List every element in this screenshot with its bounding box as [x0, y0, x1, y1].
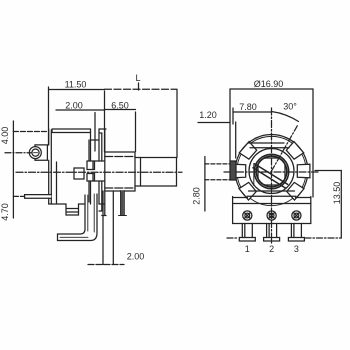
locating tab — [230, 161, 236, 180]
ring gap lower-right — [287, 182, 304, 200]
eyelet 3 — [292, 211, 301, 220]
top tooth chords — [248, 143, 289, 148]
svg-text:1: 1 — [245, 244, 250, 254]
dim diameter 16.90 line — [230, 88, 313, 90]
main pin inner wall — [60, 194, 94, 237]
rotor D-flat — [253, 164, 255, 186]
30 deg rotation line — [272, 126, 298, 172]
stub pin — [66, 204, 79, 215]
svg-text:11.50: 11.50 — [65, 80, 87, 90]
svg-text:4.70: 4.70 — [0, 203, 10, 221]
svg-text:L: L — [135, 73, 140, 83]
plate top edge — [99, 129, 106, 133]
dim text 4.70 — [0, 203, 10, 221]
lower box sides — [233, 197, 311, 224]
svg-text:2.00: 2.00 — [127, 252, 145, 262]
svg-text:3: 3 — [294, 244, 299, 254]
front plate verticals — [99, 129, 105, 211]
pin 2 — [264, 224, 280, 242]
center square — [74, 168, 84, 179]
svg-text:7.80: 7.80 — [239, 102, 257, 112]
bushing thread lines — [105, 157, 135, 189]
lower box top corners — [233, 197, 311, 199]
shaft — [135, 158, 177, 187]
pin bottom reference dashed — [227, 237, 238, 239]
svg-text:2: 2 — [269, 244, 274, 254]
side exit pin (flat, pointing left) — [25, 195, 52, 199]
body inner wall — [56, 162, 58, 203]
body bottom edge — [49, 203, 85, 205]
ring gap left — [233, 164, 246, 178]
ring gap upper-right — [286, 142, 303, 160]
dim 30 deg arc — [272, 112, 299, 122]
pin 1 — [239, 224, 255, 242]
mounting face extension vertical — [104, 91, 106, 152]
svg-text:13.50: 13.50 — [332, 182, 342, 205]
dim 1.20 — [198, 122, 230, 124]
shaft step line — [140, 158, 142, 187]
dim text 4.00 — [0, 127, 10, 145]
bottom dim extension lines — [103, 191, 113, 265]
svg-text:1.20: 1.20 — [199, 110, 217, 120]
inner circle B — [256, 156, 287, 187]
svg-text:Ø16.90: Ø16.90 — [254, 79, 284, 89]
rotor notch lower — [87, 174, 95, 182]
svg-text:4.00: 4.00 — [0, 127, 10, 145]
inner rim arc — [237, 136, 306, 205]
pin label 2 — [269, 244, 274, 254]
dim 2.00 (top) — [56, 109, 105, 111]
body left edge — [49, 129, 52, 204]
dim text 11.50 — [65, 80, 87, 90]
dim L line — [105, 88, 178, 90]
ring inner circle — [249, 149, 294, 194]
box seam — [233, 203, 311, 205]
main centerline — [16, 171, 182, 173]
pin label 3 — [294, 244, 299, 254]
dim 7.80 — [233, 111, 272, 113]
dim 13.50 — [340, 171, 342, 239]
svg-text:6.50: 6.50 — [111, 101, 129, 111]
extension line body top — [13, 131, 48, 133]
dim 11.50 line — [49, 89, 105, 91]
vertical centerline — [271, 108, 273, 243]
ring gap lower-left — [239, 182, 256, 200]
body right edge — [89, 133, 91, 205]
body top cap — [52, 129, 91, 133]
lug hole — [32, 149, 39, 156]
lug circle outer — [29, 147, 41, 159]
dim 2.00 bottom line — [88, 264, 124, 266]
lug hole centerline — [5, 152, 31, 154]
inner circle A — [254, 154, 288, 188]
svg-text:2.80: 2.80 — [192, 187, 202, 205]
plate bottom — [99, 191, 106, 216]
main pin outer — [58, 194, 98, 241]
pin label 1 — [245, 244, 250, 254]
horizontal centerline — [224, 171, 318, 173]
rotor channel — [87, 161, 105, 181]
outer rim circle — [235, 135, 308, 199]
ring gap upper-left — [239, 142, 256, 160]
dim 2.80 — [204, 157, 206, 212]
top notch connector — [91, 139, 100, 141]
rotor notch upper — [87, 161, 95, 170]
svg-text:2.00: 2.00 — [65, 101, 83, 111]
bushing outline — [105, 152, 135, 191]
dim 6.50 — [105, 109, 136, 111]
eyelet 1 — [243, 211, 252, 220]
svg-text:30°: 30° — [283, 102, 297, 112]
dimension 4.00 / 4.70 vertical line — [12, 121, 14, 218]
pin 3 — [288, 224, 304, 242]
lug body — [35, 145, 47, 160]
slot lines — [253, 164, 288, 189]
L extension at shaft tip — [176, 90, 178, 158]
eyelet 2 — [267, 211, 276, 220]
rear bracket — [119, 191, 127, 216]
bottom tooth chords — [247, 191, 296, 196]
slot plate — [258, 158, 285, 185]
extension line pin row — [13, 195, 25, 197]
box bottom — [233, 223, 311, 225]
ring gap right — [297, 164, 310, 178]
